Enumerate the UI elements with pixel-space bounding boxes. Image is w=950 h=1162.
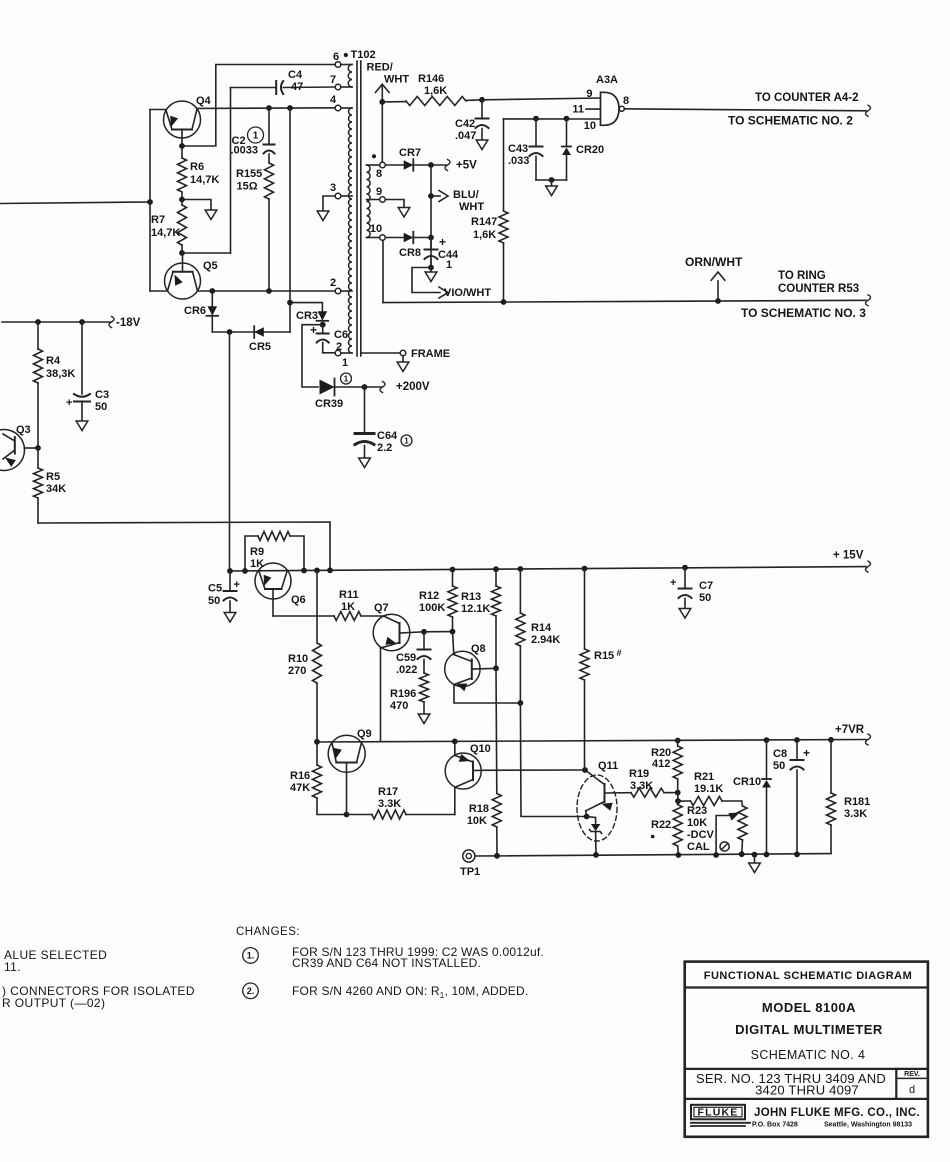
svg-text:Q10: Q10 [470, 743, 491, 755]
svg-text:C42: C42 [455, 118, 475, 130]
node R10 top [314, 568, 320, 574]
svg-text:CR7: CR7 [399, 147, 421, 159]
diode CR5 [254, 326, 264, 338]
label CR20 [576, 144, 604, 156]
label R11 value [339, 589, 359, 613]
node R155 bottom [266, 288, 272, 294]
node Q8 emitter R14 [518, 700, 524, 706]
pin 7 [335, 84, 341, 90]
label Q3 [16, 424, 31, 436]
label C3 plus [66, 397, 72, 409]
label C5 value [208, 583, 222, 608]
wire Q10 base to Q11 collector [482, 769, 586, 771]
svg-text:R14: R14 [531, 622, 552, 634]
wire +7VR rail [317, 740, 866, 743]
svg-text:8: 8 [623, 95, 629, 107]
wire Q4 base to pin 6 loop [182, 65, 335, 147]
svg-text:ORN/WHT: ORN/WHT [685, 255, 743, 269]
node Q4 base [179, 143, 185, 149]
svg-text:1,6K: 1,6K [424, 85, 447, 97]
label C2 value [231, 135, 259, 157]
svg-text:CR5: CR5 [249, 341, 271, 353]
node C44 bottom [428, 265, 434, 271]
label R12 value [419, 590, 445, 614]
node C3 top [79, 319, 85, 325]
tick +200V [380, 382, 385, 393]
svg-text:VIO/WHT: VIO/WHT [444, 287, 491, 299]
svg-text:14,7K: 14,7K [151, 227, 180, 239]
label Q9 [357, 728, 372, 740]
wire C43 CR20 bottom [536, 179, 567, 181]
label R16 value [290, 770, 310, 794]
potentiometer R23 [738, 801, 747, 854]
svg-text:CAL: CAL [687, 841, 710, 853]
node corner from R5 [327, 567, 333, 573]
svg-text:412: 412 [652, 758, 670, 770]
NAND gate A3A [601, 92, 625, 125]
note 1 line 2 [292, 956, 481, 970]
node C8 bottom [794, 851, 800, 857]
label C8 plus [803, 746, 810, 760]
pot R23 wiper [716, 809, 741, 855]
wire RED/WHT arrow [376, 84, 390, 162]
label R9 value [250, 546, 264, 570]
wire bottom rail [475, 854, 831, 856]
capacitor C59 [418, 632, 431, 673]
svg-text:1.: 1. [247, 951, 255, 961]
svg-text:C43: C43 [508, 143, 528, 155]
pin stub 1 [341, 352, 352, 354]
pin 10 [380, 235, 386, 241]
svg-text:CR8: CR8 [399, 247, 421, 259]
svg-text:C3: C3 [95, 389, 109, 401]
label R181 value [844, 796, 870, 820]
label +7VR [835, 724, 865, 736]
svg-text:Q5: Q5 [203, 260, 218, 272]
svg-text:8: 8 [376, 168, 382, 180]
diode CR3 [317, 311, 329, 321]
pin stub 10 [367, 237, 380, 239]
diode CR7 [385, 159, 413, 171]
wire long vertical to +15V rail [229, 332, 231, 571]
label Q5 [203, 260, 218, 272]
node +15V C5 [227, 568, 233, 574]
wire to CR3 [290, 303, 322, 311]
label C7 value [699, 580, 713, 604]
svg-text:TO SCHEMATIC NO. 3: TO SCHEMATIC NO. 3 [741, 306, 866, 320]
label cut text CONNECTORS [2, 984, 195, 998]
svg-text:R12: R12 [419, 590, 439, 602]
ground at FRAME [397, 356, 409, 372]
ground under C64 [359, 458, 371, 468]
wire Q7 emitter down [380, 648, 382, 742]
svg-text:7: 7 [330, 74, 336, 86]
svg-text:10K: 10K [687, 817, 707, 829]
svg-text:P.O. Box 7428: P.O. Box 7428 [752, 1122, 798, 1129]
ground under C43 [546, 180, 558, 196]
svg-text:+5V: +5V [456, 160, 477, 172]
resistor R20 [673, 741, 682, 793]
node C8 top [794, 737, 800, 743]
node C44 top [428, 235, 434, 241]
note 1 line 1 [292, 945, 544, 959]
node R9 left [242, 568, 248, 574]
label ORN/WHT [685, 255, 743, 269]
label Q8 [471, 643, 486, 655]
svg-text:C8: C8 [773, 748, 787, 760]
node CR5 long vertical [227, 329, 233, 335]
pin 1 [335, 350, 341, 356]
wire R146 to gate input 9 [482, 98, 601, 100]
transformer primary winding 4-1 [349, 108, 352, 353]
label Q11 [598, 760, 618, 772]
svg-text:+200V: +200V [396, 381, 430, 393]
svg-text:3.3K: 3.3K [378, 798, 401, 810]
svg-text:Q4: Q4 [196, 95, 212, 107]
svg-text:Q8: Q8 [471, 643, 486, 655]
svg-text:Q6: Q6 [291, 594, 306, 606]
label TP1 [460, 866, 480, 878]
ground under C7 [679, 609, 691, 619]
label +15V [833, 550, 864, 562]
node R181 top [828, 737, 834, 743]
transistor Q11 [585, 770, 631, 811]
pin 2 [335, 288, 341, 294]
label gate pin 11 [572, 104, 584, 116]
wire CR3 cathode to CR39 branch [302, 325, 323, 387]
label C42 value [455, 118, 476, 142]
transformer T102 core [357, 61, 361, 356]
wire C4 branch vertical [230, 88, 232, 254]
svg-text:MODEL 8100A: MODEL 8100A [762, 1000, 856, 1015]
svg-text:R22: R22 [651, 819, 671, 831]
svg-text:47K: 47K [290, 782, 310, 794]
wire gate output to counter [624, 109, 866, 111]
label TO RING [778, 270, 826, 282]
resistor R13 [492, 569, 501, 668]
capacitor C8 [791, 740, 804, 854]
capacitor C4 [231, 81, 336, 94]
svg-text:R147: R147 [471, 216, 497, 228]
svg-text:Q3: Q3 [16, 424, 31, 436]
pin stub 3 [341, 195, 352, 197]
svg-text:19.1K: 19.1K [694, 783, 723, 795]
svg-text:CR39: CR39 [315, 398, 343, 410]
svg-text:50: 50 [773, 760, 785, 772]
wire Q8 emitter to R14 [454, 685, 520, 704]
svg-text:+: + [670, 577, 676, 589]
note 2 line 1 [292, 984, 528, 1000]
node R14 top [518, 566, 524, 572]
svg-text:WHT: WHT [384, 73, 409, 85]
svg-text:.047: .047 [455, 130, 476, 142]
svg-text:RED/: RED/ [367, 62, 393, 74]
node wiper bottom [713, 852, 719, 858]
label R6 value [190, 161, 219, 186]
title block divider 1 [685, 986, 928, 988]
resistor R19 [631, 788, 678, 797]
node R22 bottom [676, 852, 682, 858]
wire gate input 10 [504, 118, 601, 120]
note circle 1 at C64 [401, 435, 412, 446]
svg-text:TO RING: TO RING [778, 270, 826, 282]
svg-text:Q9: Q9 [357, 728, 372, 740]
node R21 left [675, 798, 681, 804]
capacitor C7 [679, 568, 692, 609]
svg-text:C7: C7 [699, 580, 713, 592]
pin 9 [380, 197, 386, 203]
resistor R11 [334, 612, 384, 621]
title JOHN FLUKE MFG [754, 1107, 920, 1119]
svg-text:3.3K: 3.3K [630, 780, 653, 792]
svg-text:DIGITAL MULTIMETER: DIGITAL MULTIMETER [735, 1022, 883, 1037]
label TO SCHEMATIC NO. 2 [728, 114, 853, 128]
pin stub 6 [341, 64, 352, 66]
label gate pin 8 [623, 95, 629, 107]
svg-text:470: 470 [390, 700, 408, 712]
tick +5V [445, 160, 450, 171]
svg-text:#: # [617, 648, 622, 658]
label C7 plus [670, 577, 676, 589]
svg-text:3: 3 [330, 182, 336, 194]
node ORN/WHT [715, 298, 721, 304]
svg-text:2: 2 [330, 277, 336, 289]
svg-text:+7VR: +7VR [835, 724, 865, 736]
wire +5V node vertical [430, 165, 432, 268]
svg-text:R146: R146 [418, 73, 444, 85]
label CR5 [249, 341, 271, 353]
resistor R21 [678, 797, 742, 806]
node R12 bottom [450, 629, 456, 635]
svg-text:C5: C5 [208, 583, 222, 595]
svg-text:R OUTPUT (—02): R OUTPUT (—02) [2, 996, 105, 1010]
resistor R12 [448, 570, 457, 632]
capacitor C64 [355, 387, 374, 458]
svg-text:1: 1 [446, 259, 452, 271]
svg-text:38,3K: 38,3K [46, 368, 75, 380]
label REV [904, 1071, 920, 1078]
node zener bottom [593, 852, 599, 858]
label CR7 [399, 147, 421, 159]
title block divider 2 [685, 1068, 928, 1070]
label R15 [594, 648, 622, 662]
resistor R16 [313, 742, 347, 815]
wire CR3 branch vertical [289, 108, 291, 303]
node CR20 top [564, 116, 570, 122]
svg-text:4: 4 [330, 94, 337, 106]
transistor Q7 [373, 614, 424, 651]
wire CR8 to C44 [414, 237, 432, 239]
pin FRAME [400, 350, 406, 356]
wire Q11 emitter [585, 811, 588, 817]
svg-text:1: 1 [404, 436, 409, 445]
svg-text:R9: R9 [250, 546, 264, 558]
tick -18V [109, 317, 114, 328]
label Q7 [374, 602, 389, 614]
capacitor C42 [476, 100, 489, 140]
node CR6 top [209, 288, 215, 294]
svg-text:Seattle, Washington 98133: Seattle, Washington 98133 [824, 1122, 912, 1129]
node CR3 cathode [320, 322, 326, 328]
svg-text:2.94K: 2.94K [531, 634, 560, 646]
resistor R181 [827, 740, 836, 854]
svg-text:+: + [66, 397, 72, 409]
pin stub 7 [341, 86, 352, 88]
svg-text:CR20: CR20 [576, 144, 604, 156]
node +5V [428, 162, 434, 168]
label C8 value [773, 748, 787, 772]
svg-text:2.: 2. [247, 986, 255, 996]
node C7 top [682, 565, 688, 571]
label R4 value [46, 355, 75, 380]
node R13 top [493, 566, 499, 572]
ground under C5 [224, 613, 236, 623]
wire CR5 row [212, 303, 290, 332]
label pin 6 [333, 51, 339, 63]
svg-text:1: 1 [253, 131, 259, 142]
wire Q4 collector to pin 4 [197, 107, 335, 110]
ground under bottom rail [749, 863, 761, 873]
node CR10 bottom [764, 852, 770, 858]
phase dot secondary [372, 154, 376, 158]
svg-text:d: d [909, 1084, 915, 1096]
resistor R5 [34, 448, 43, 523]
node BLU/WHT [428, 193, 434, 199]
label TO COUNTER A4-2 [755, 92, 859, 104]
ground at pin 9 [398, 208, 410, 218]
node pot bottom [739, 851, 745, 857]
label CR10 [733, 776, 761, 788]
diode CR8 [385, 232, 413, 244]
svg-text:CHANGES:: CHANGES: [236, 926, 300, 938]
label Q4 [196, 95, 212, 107]
svg-text:.033: .033 [508, 155, 529, 167]
svg-text:CR6: CR6 [184, 305, 206, 317]
diode CR10 [762, 740, 771, 854]
svg-text:.022: .022 [396, 664, 417, 676]
note circle 1 at C2 [248, 127, 264, 143]
svg-text:10: 10 [370, 223, 382, 235]
svg-text:-18V: -18V [116, 317, 141, 329]
wire Q4-Q5 left rail [149, 110, 151, 292]
title PO Box [752, 1122, 798, 1129]
svg-text:CR39 AND C64 NOT INSTALLED.: CR39 AND C64 NOT INSTALLED. [292, 956, 481, 970]
svg-text:C4: C4 [288, 69, 303, 81]
label CR6 [184, 305, 206, 317]
pin stub 8 [367, 164, 380, 166]
svg-text:C6: C6 [334, 329, 348, 341]
node R9 right [301, 568, 307, 574]
svg-text:+: + [234, 579, 240, 591]
label C4 value [288, 69, 303, 93]
ground under C44 [425, 268, 437, 282]
label C6 value [334, 329, 348, 353]
label A3A [596, 74, 618, 86]
label R10 value [288, 653, 308, 677]
label pin 8 [376, 168, 382, 180]
node R146 left [379, 99, 385, 105]
screw adjust symbol [720, 842, 729, 851]
label C44 plus [439, 235, 446, 249]
wire R14 down to Q11 emitter [520, 703, 586, 817]
label C6 plus [310, 323, 317, 337]
wire pin 3 to ground [323, 196, 335, 211]
svg-text:CR3: CR3 [296, 310, 318, 322]
svg-text:R19: R19 [629, 768, 649, 780]
wire Q5 collector to pin 2 [198, 290, 336, 292]
capacitor C43 [530, 119, 543, 180]
svg-text:C59: C59 [396, 652, 416, 664]
ground under R196 [418, 714, 430, 724]
svg-text:R16: R16 [290, 770, 310, 782]
label C64 value [377, 430, 398, 454]
label R19 value [629, 768, 653, 792]
transistor Q10 [445, 753, 481, 789]
note circle 2 [243, 983, 259, 999]
wire Q8 collector up [453, 632, 454, 655]
capacitor C6 [317, 325, 336, 353]
svg-text:10K: 10K [467, 815, 487, 827]
wire R5 to +15V rail [38, 522, 330, 570]
svg-text:REV.: REV. [904, 1071, 920, 1078]
svg-text:T102: T102 [351, 49, 376, 61]
svg-text:JOHN FLUKE MFG. CO., INC.: JOHN FLUKE MFG. CO., INC. [754, 1107, 920, 1119]
svg-text:+: + [803, 746, 810, 760]
capacitor C44 [425, 238, 438, 268]
resistor R17 [347, 810, 455, 819]
node R147 bottom [501, 299, 507, 305]
pin 3 [335, 193, 341, 199]
label FRAME [411, 348, 450, 360]
wire Q5 base to C4 branch [182, 252, 231, 254]
label BLU/WHT [453, 189, 484, 213]
label R22 [651, 819, 671, 838]
pin 6 [335, 62, 341, 68]
resistor R4 [34, 322, 43, 448]
node R16 top [314, 739, 320, 745]
svg-text:CR10: CR10 [733, 776, 761, 788]
svg-text:11.: 11. [4, 960, 21, 974]
pin 8 [380, 162, 386, 168]
svg-text:R155: R155 [236, 168, 262, 180]
label R14 value [531, 622, 560, 646]
svg-text:WHT: WHT [459, 201, 484, 213]
label VIO/WHT [444, 287, 491, 299]
wire Q5 emitter [150, 290, 168, 292]
svg-text:270: 270 [288, 665, 306, 677]
svg-text:-DCV: -DCV [687, 829, 715, 841]
label R7 value [151, 214, 180, 239]
svg-text:FRAME: FRAME [411, 348, 450, 360]
gate input 11 stub [586, 108, 601, 110]
node R18 bottom [494, 853, 500, 859]
node Q3 collector [35, 445, 41, 451]
label R146 value [418, 73, 447, 97]
label gate pin 9 [586, 88, 592, 100]
wire Q4 emitter [150, 109, 166, 111]
svg-text:47: 47 [291, 81, 303, 93]
node R7 left-rail junction [147, 199, 153, 205]
wire pin 9 ground [385, 200, 404, 208]
label C5 plus [234, 579, 240, 591]
resistor R9 [245, 532, 304, 571]
label Q6 [291, 594, 306, 606]
transistor Q8 [445, 651, 496, 691]
ground under C3 [76, 421, 88, 431]
svg-text:1: 1 [344, 374, 349, 383]
svg-text:R181: R181 [844, 796, 870, 808]
transistor Q4 [164, 101, 201, 146]
